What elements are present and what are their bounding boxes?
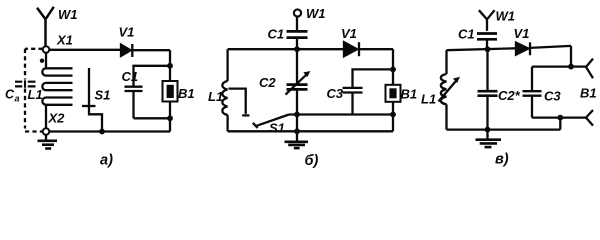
svg-text:W1: W1	[306, 6, 326, 21]
svg-text:а): а)	[100, 153, 113, 169]
svg-text:W1: W1	[58, 7, 78, 22]
svg-text:V1: V1	[119, 25, 135, 40]
svg-text:X1: X1	[56, 32, 73, 47]
svg-text:B1: B1	[580, 86, 597, 101]
svg-text:B1: B1	[401, 87, 418, 102]
svg-text:C1: C1	[458, 27, 475, 42]
svg-text:W1: W1	[496, 9, 516, 24]
svg-text:C: C	[5, 88, 15, 102]
svg-text:в): в)	[495, 152, 509, 168]
svg-text:S1: S1	[95, 88, 111, 103]
svg-text:L1: L1	[28, 87, 43, 102]
svg-text:C1: C1	[268, 27, 285, 42]
svg-text:S1: S1	[269, 120, 285, 135]
svg-text:C3: C3	[327, 86, 344, 101]
svg-text:V1: V1	[341, 26, 357, 41]
svg-text:C2: C2	[259, 75, 276, 90]
svg-text:L1: L1	[421, 92, 436, 107]
svg-text:B1: B1	[178, 86, 195, 101]
svg-text:C3: C3	[544, 89, 561, 104]
svg-text:a: a	[15, 94, 20, 104]
svg-text:б): б)	[305, 153, 319, 169]
svg-text:V1: V1	[514, 26, 530, 41]
svg-text:C2*: C2*	[498, 88, 521, 103]
svg-text:X2: X2	[48, 111, 66, 126]
svg-text:C1: C1	[122, 69, 139, 84]
svg-text:L1: L1	[208, 89, 223, 104]
